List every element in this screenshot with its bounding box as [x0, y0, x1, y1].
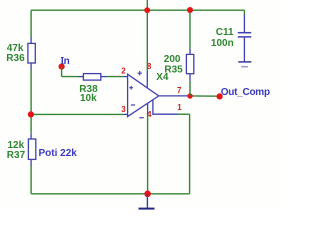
op-amp inverting input minus marker — [131, 104, 135, 106]
svg-text:R36: R36 — [6, 53, 25, 64]
node junction dot on bottom rail — [144, 191, 151, 198]
op-amp positive supply plus marker — [138, 71, 142, 75]
svg-text:Out_Comp: Out_Comp — [221, 87, 270, 98]
op-amp U X4 comparator triangle — [128, 74, 159, 116]
wire pin 1 net to right loop corner — [178, 113, 190, 115]
wire right loop vertical down to bottom rail — [189, 114, 191, 194]
wire In to R38 — [62, 76, 79, 78]
svg-text:C11: C11 — [216, 27, 234, 38]
wire op-amp pin 7 output lead — [159, 95, 190, 97]
wire top rail corner down to C11 — [243, 10, 245, 14]
svg-text:10k: 10k — [80, 93, 97, 104]
wire V+ rail down to op-amp pin 8 — [146, 10, 148, 71]
wire left vertical rail lower (R37 to bottom rail) — [30, 166, 32, 194]
op-amp non-inverting input plus marker — [129, 86, 133, 90]
wire C11 top lead — [243, 15, 245, 33]
wire op-amp pin 3 lead — [124, 113, 128, 115]
svg-text:2: 2 — [121, 67, 126, 76]
svg-text:100n: 100n — [211, 38, 234, 49]
wire op-amp pin 4 down to bottom rail — [147, 116, 149, 194]
wire op-amp pin 2 lead — [124, 76, 128, 78]
node junction dot top rail at pin8 column — [144, 7, 150, 13]
wire left vertical rail upper (top rail to R36) — [30, 10, 32, 37]
wire R35 bottom lead — [189, 74, 191, 81]
wire op-amp pin 1 lead (down then right) — [153, 100, 178, 115]
node junction dot top rail at R35 column — [187, 7, 193, 13]
resistor R36 — [28, 43, 35, 63]
label net In capital-I serifs — [61, 58, 64, 64]
capacitor C11 bottom plate — [238, 36, 251, 38]
wire R36 bottom lead — [30, 63, 32, 70]
wire output net to Out_Comp terminal — [190, 95, 220, 97]
wire R36 top lead — [30, 37, 32, 43]
wire In stub down — [61, 67, 63, 77]
node junction dot at R36/R37 divider — [28, 111, 34, 117]
svg-text:47k: 47k — [7, 43, 24, 54]
ground symbol bar at C11 — [238, 61, 251, 63]
wire C11 bottom lead — [243, 38, 245, 62]
svg-text:200: 200 — [164, 54, 181, 65]
wire R38 to op-amp pin 2 — [107, 76, 124, 78]
wire R37 bottom lead — [30, 159, 32, 166]
resistor R38 — [83, 74, 100, 81]
wire inverting input net (node to op-amp pin 3) — [31, 113, 124, 115]
wire R37 top lead — [30, 134, 32, 139]
wire bottom rail net GND — [31, 193, 190, 195]
node Out_Comp terminal dot — [217, 93, 223, 99]
wire R35 to output junction — [189, 81, 191, 96]
svg-text:Poti 22k: Poti 22k — [39, 148, 78, 159]
wire top rail net V+ — [31, 9, 244, 11]
ground symbol bar — [139, 208, 155, 210]
svg-text:1: 1 — [177, 103, 182, 112]
svg-text:R37: R37 — [7, 150, 26, 161]
node In terminal dot — [59, 64, 65, 70]
wire R35 top lead — [189, 49, 191, 55]
svg-text:7: 7 — [177, 86, 182, 95]
resistor R37 — [28, 139, 35, 159]
wire stub above top rail at pin8 column — [146, 0, 148, 10]
capacitor C11 top plate — [238, 32, 251, 34]
wire V+ rail down to R35 — [189, 10, 191, 48]
wire op-amp pin 8 lead into symbol — [146, 71, 148, 88]
wire R38 right lead — [101, 76, 107, 78]
wire op-amp pin 4 lead out of symbol — [147, 103, 149, 116]
wire node to R37 — [30, 114, 32, 133]
op-amp negative supply minus marker — [139, 117, 143, 119]
wire R38 left lead — [79, 76, 84, 78]
svg-text:3: 3 — [121, 105, 126, 114]
ground symbol second bar at C11 — [241, 66, 248, 68]
node junction dot output / R35 — [187, 93, 192, 98]
wire left vertical rail middle (R36 to node) — [30, 70, 32, 115]
svg-text:X4: X4 — [156, 72, 169, 83]
ground symbol lead below bottom rail — [146, 194, 148, 208]
resistor R35 — [186, 54, 193, 73]
